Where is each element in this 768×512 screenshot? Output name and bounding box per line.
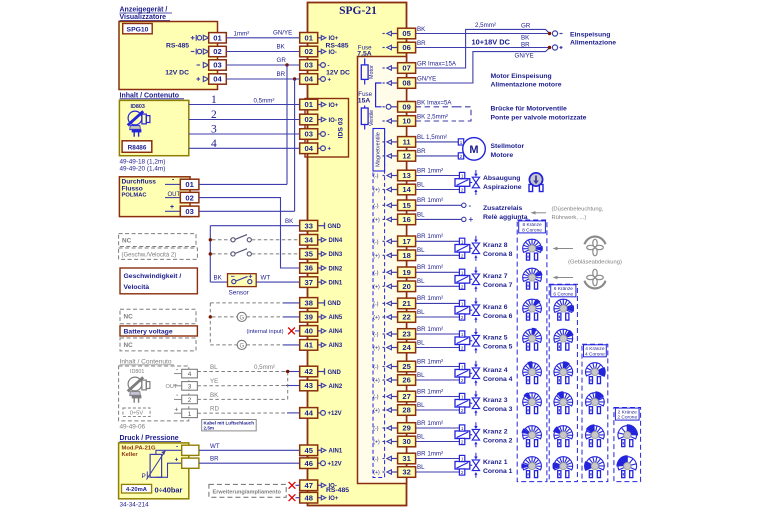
junction dot BR xyxy=(293,77,296,80)
svg-text:12V DC: 12V DC xyxy=(326,69,350,76)
svg-text:-: - xyxy=(469,201,472,210)
label Kranz 5 xyxy=(483,335,513,351)
svg-text:Kranz 5: Kranz 5 xyxy=(483,335,508,342)
wire BL (ID801-4 to 42) xyxy=(197,371,299,373)
terminal 22 (SPG-21 right) xyxy=(398,312,416,323)
ID801 terminal 3 xyxy=(166,382,198,391)
svg-text:2: 2 xyxy=(461,315,464,320)
svg-text:(-): (-) xyxy=(373,457,378,463)
svg-text:30: 30 xyxy=(402,437,410,446)
ID801 terminal 2 xyxy=(174,392,197,404)
svg-text:38: 38 xyxy=(304,299,312,308)
SPG10 terminal 03 xyxy=(209,60,227,70)
svg-text:IO+: IO+ xyxy=(329,36,339,42)
label BL 1,5mm2 xyxy=(417,134,447,141)
svg-text:GND: GND xyxy=(328,370,342,376)
svg-text:BK: BK xyxy=(285,218,294,225)
label BL (22) xyxy=(417,309,425,316)
SPG-21 title xyxy=(339,5,377,17)
svg-text:Stellmotor: Stellmotor xyxy=(491,143,525,150)
svg-text:Visualizzatore: Visualizzatore xyxy=(120,14,167,21)
svg-text:-: - xyxy=(176,444,178,451)
svg-text:BR 1mm²: BR 1mm² xyxy=(417,358,443,365)
svg-text:Flusso: Flusso xyxy=(122,185,143,192)
x mark terminal 48 xyxy=(289,494,300,501)
svg-text:BK Imax=5A: BK Imax=5A xyxy=(417,99,452,106)
svg-text:2: 2 xyxy=(461,378,464,383)
svg-text:(+): (+) xyxy=(373,378,380,384)
flow meter terminal 03 xyxy=(180,206,199,217)
pin 35 DIN3 stub xyxy=(318,252,343,259)
svg-text:BR 1mm²: BR 1mm² xyxy=(417,264,443,271)
dashed column box 8 Kraenze xyxy=(517,220,547,482)
label 0,5mm2 (ID801) xyxy=(254,364,275,371)
label BL (24) xyxy=(417,339,425,346)
wire BK (ID801-2 up to 42) xyxy=(197,374,287,400)
label BR 1mm2 (13) xyxy=(417,167,443,174)
label GR xyxy=(277,57,287,64)
svg-text:SPG-21: SPG-21 xyxy=(339,5,377,17)
svg-text:(+): (+) xyxy=(373,253,380,259)
wire GND row 38 xyxy=(210,302,299,304)
ID801 terminal 4 xyxy=(174,366,197,378)
svg-text:GN/YE: GN/YE xyxy=(515,53,534,60)
svg-text:BL 1,5mm²: BL 1,5mm² xyxy=(417,134,447,141)
svg-text:10: 10 xyxy=(402,117,410,126)
svg-text:Corona 4: Corona 4 xyxy=(483,376,513,383)
IDS 03 label xyxy=(338,117,345,138)
kranz icon 4 in column 6 xyxy=(554,361,573,383)
dashed vertical (G group) xyxy=(209,303,211,345)
svg-text:2: 2 xyxy=(461,346,464,351)
svg-text:01: 01 xyxy=(304,34,313,43)
label BR (supply) xyxy=(521,41,530,48)
wire flow meter 02 OUT to DIN2 xyxy=(199,198,300,268)
kranz icon 6 in column 6 xyxy=(554,299,574,320)
svg-text:RS-485: RS-485 xyxy=(326,487,349,494)
svg-text:2: 2 xyxy=(461,284,464,289)
svg-text:BL: BL xyxy=(417,211,425,218)
svg-text:25: 25 xyxy=(402,362,411,371)
kranz icon 1 in column 4 xyxy=(584,457,604,478)
terminal 06 (SPG-21 right) xyxy=(398,42,416,53)
kranz icon 2 in column 6 xyxy=(553,426,573,447)
svg-text:0,5mm²: 0,5mm² xyxy=(254,364,275,371)
svg-text:3: 3 xyxy=(188,383,192,390)
title Inhalt/Contenuto (ID801) xyxy=(120,358,175,365)
wire BR 06 to supply xyxy=(416,47,550,49)
kranz icon 5 in column 8 xyxy=(523,328,542,350)
speed sensor switch box xyxy=(228,274,257,287)
svg-text:16: 16 xyxy=(402,215,410,224)
terminal 21 (SPG-21 right) xyxy=(398,298,416,309)
label BL (26) xyxy=(417,372,425,379)
solenoid valve kranz 1 xyxy=(455,453,480,478)
label WT (sensor) xyxy=(261,274,271,281)
terminal 23 (SPG-21 right) xyxy=(398,329,416,340)
svg-text:OUT: OUT xyxy=(166,384,178,390)
wire GR 07 up to supply xyxy=(416,29,550,68)
terminal 09 (SPG-21 right) xyxy=(398,102,416,113)
wire BR down to flow meter plus xyxy=(294,79,296,211)
terminal 03 (SPG-21 left B03) xyxy=(300,129,318,140)
pin 34 DIN4 stub xyxy=(318,238,343,245)
svg-text:22: 22 xyxy=(402,313,410,322)
suction icon xyxy=(529,173,543,192)
svg-text:12: 12 xyxy=(402,152,410,161)
svg-text:Corona 2: Corona 2 xyxy=(483,438,513,445)
wire to relay plus xyxy=(416,215,474,224)
svg-text:1: 1 xyxy=(461,174,464,179)
label 49-49-06 xyxy=(120,423,146,430)
kranz icon 1 in column 2 xyxy=(616,455,636,477)
SPG-21 main unit box xyxy=(308,3,407,506)
svg-text:2: 2 xyxy=(461,253,464,258)
svg-text:4 Kränze: 4 Kränze xyxy=(585,346,605,352)
x mark terminal 47 xyxy=(289,482,300,489)
svg-text:49-49-20 (1,4m): 49-49-20 (1,4m) xyxy=(120,166,166,173)
svg-text:DIN1: DIN1 xyxy=(329,280,343,286)
svg-text:Anzeigegerät /: Anzeigegerät / xyxy=(120,7,168,14)
label BR 1mm2 (25) xyxy=(417,358,443,365)
svg-text:Corona 5: Corona 5 xyxy=(483,344,513,351)
terminal 32 (SPG-21 right) xyxy=(398,467,416,478)
SPG10 RS-485 label xyxy=(166,42,189,49)
svg-text:Magnetventile: Magnetventile xyxy=(375,132,381,167)
NC dashed box 1 xyxy=(119,234,196,247)
label Kranz 4 xyxy=(483,367,513,383)
svg-text:Corona 1: Corona 1 xyxy=(483,468,513,475)
svg-text:(+): (+) xyxy=(373,315,380,321)
label Geblaeseabdeckung xyxy=(568,259,622,265)
svg-text:20: 20 xyxy=(402,282,410,291)
flow meter minus mark xyxy=(165,177,180,185)
wire BR to kranz 1 valve xyxy=(416,458,460,460)
kranz icon 1 in column 8 xyxy=(521,457,541,478)
generator G2 xyxy=(210,340,299,349)
svg-text:2: 2 xyxy=(460,154,463,159)
svg-text:1: 1 xyxy=(461,365,464,370)
svg-text:(+): (+) xyxy=(373,217,380,223)
label GN/YE xyxy=(273,29,292,36)
svg-text:POLMAC: POLMAC xyxy=(122,193,148,199)
svg-text:-: - xyxy=(328,63,330,69)
solenoid valve kranz 2 xyxy=(455,422,480,447)
svg-text:IO-: IO- xyxy=(329,118,337,124)
svg-text:24: 24 xyxy=(402,343,411,352)
svg-text:1: 1 xyxy=(211,94,217,106)
wire BR (SPG10-04 to 04) xyxy=(226,78,299,80)
svg-text:10+18V DC: 10+18V DC xyxy=(472,38,511,47)
svg-text:Kranz 2: Kranz 2 xyxy=(483,429,508,436)
terminal 46 (SPG-21 left 46) xyxy=(300,458,318,469)
svg-text:27: 27 xyxy=(402,392,410,401)
label BR xyxy=(277,71,286,78)
svg-text:GR: GR xyxy=(277,57,287,64)
svg-text:BL: BL xyxy=(417,464,425,471)
wire cable 4 (ID803 to IDS 04) xyxy=(189,147,300,149)
kranz icon 2 in column 4 xyxy=(586,424,605,446)
label Kranz 3 xyxy=(483,397,513,413)
svg-text:(+): (+) xyxy=(373,440,380,446)
terminal 14 (SPG-21 right) xyxy=(398,184,416,195)
label BK (ID801) xyxy=(210,392,219,399)
label RD xyxy=(210,406,219,413)
solenoid valve kranz 5 xyxy=(455,328,480,353)
svg-text:36: 36 xyxy=(304,264,312,273)
internal input row 40 xyxy=(247,328,300,336)
svg-text:0÷40bar: 0÷40bar xyxy=(155,485,183,494)
svg-text:GN/YE: GN/YE xyxy=(273,29,292,36)
svg-text:BK: BK xyxy=(214,274,223,281)
svg-text:YE: YE xyxy=(210,378,218,385)
svg-text:AIN5: AIN5 xyxy=(329,315,343,321)
svg-text:IO+: IO+ xyxy=(329,103,339,109)
wire WT to 45 xyxy=(199,449,300,451)
terminal 39 (SPG-21 left 39) xyxy=(300,312,318,323)
RS-485 label (SPG-21 left top) xyxy=(325,42,348,49)
svg-text:4 Corone: 4 Corone xyxy=(585,351,605,357)
terminal 13 (SPG-21 right) xyxy=(398,170,416,181)
svg-text:2: 2 xyxy=(461,408,464,413)
svg-text:47: 47 xyxy=(304,481,312,490)
terminal 05 (SPG-21 right) xyxy=(398,28,416,39)
Erweiterung dashed box xyxy=(209,484,286,497)
terminal 47 (SPG-21 left 47) xyxy=(300,480,318,491)
supply minus node xyxy=(548,31,563,36)
svg-text:03: 03 xyxy=(304,61,312,70)
label Motor Einspeisung xyxy=(491,73,562,89)
svg-text:BL: BL xyxy=(417,339,425,346)
svg-text:26: 26 xyxy=(402,376,410,385)
svg-text:Mod.PA-21G: Mod.PA-21G xyxy=(122,446,157,452)
svg-text:(-): (-) xyxy=(373,332,378,338)
svg-text:Ponte per valvole motorizzate: Ponte per valvole motorizzate xyxy=(491,114,587,121)
junction dot GR xyxy=(285,63,288,66)
svg-text:2,5mm²: 2,5mm² xyxy=(475,22,496,29)
svg-text:4: 4 xyxy=(188,371,192,378)
svg-text:Einspeisung: Einspeisung xyxy=(570,31,610,38)
terminal 10 (SPG-21 right) xyxy=(398,116,416,127)
svg-text:BL: BL xyxy=(417,278,425,285)
terminal 01 (SPG-21 left B01) xyxy=(300,99,318,110)
label BL (20) xyxy=(417,278,425,285)
SPG10 terminal 01 xyxy=(209,33,227,43)
label 10+18V DC xyxy=(472,38,511,47)
terminal 44 (SPG-21 left 44) xyxy=(300,408,318,419)
svg-text:34-34-214: 34-34-214 xyxy=(120,501,150,508)
wire BR to kranz 8 valve xyxy=(416,240,460,242)
kranz icon 4 in column 8 xyxy=(523,361,542,383)
label Kranz 7 xyxy=(483,273,513,289)
SPG10 pin symbol 01 xyxy=(191,35,209,41)
label 2,5mm2 xyxy=(475,22,496,29)
svg-text:19: 19 xyxy=(402,268,410,277)
svg-text:(-): (-) xyxy=(373,301,378,307)
motor M pins xyxy=(458,139,463,159)
wire BL to kranz 1 valve xyxy=(416,471,460,473)
svg-text:(internal input): (internal input) xyxy=(247,329,284,335)
wire BR to kranz 2 valve xyxy=(416,427,460,429)
svg-text:IO-: IO- xyxy=(329,50,337,56)
pin IDS02 IO- stub xyxy=(318,117,337,124)
solenoid valve kranz 3 xyxy=(455,391,480,416)
svg-text:4: 4 xyxy=(211,138,217,150)
svg-text:BK: BK xyxy=(210,392,219,399)
svg-text:Inhalt / Contenuto: Inhalt / Contenuto xyxy=(120,92,180,99)
cable wire number 1 xyxy=(211,94,217,106)
wire BL to kranz 5 valve xyxy=(416,347,460,349)
label Einspeisung/Alimentazione xyxy=(570,31,616,46)
bridge dashed 09-10 xyxy=(456,107,471,121)
svg-text:BR 1mm²: BR 1mm² xyxy=(417,197,443,204)
svg-text:BL: BL xyxy=(210,364,218,371)
svg-text:BR 1mm²: BR 1mm² xyxy=(417,295,443,302)
svg-text:8 Corone: 8 Corone xyxy=(522,228,542,234)
svg-text:1: 1 xyxy=(461,239,464,244)
label BK (sensor) xyxy=(214,274,223,281)
svg-text:2: 2 xyxy=(461,188,464,193)
svg-text:(-): (-) xyxy=(373,270,378,276)
svg-text:Kranz 4: Kranz 4 xyxy=(483,367,508,374)
Magnetventile dashed box xyxy=(373,129,385,478)
label BK xyxy=(277,43,286,50)
svg-text:BR 1mm²: BR 1mm² xyxy=(417,388,443,395)
SPG10 pin symbol 02 xyxy=(191,49,209,55)
svg-text:Corona 6: Corona 6 xyxy=(483,313,513,320)
label Kranz 8 xyxy=(483,242,513,258)
pin 37 DIN1 stub xyxy=(318,280,343,287)
svg-text:0÷5V: 0÷5V xyxy=(130,411,144,417)
svg-text:11: 11 xyxy=(403,138,412,147)
label BR 1mm2 (21) xyxy=(417,295,443,302)
pin 47 IO- stub xyxy=(318,483,337,490)
terminal 19 (SPG-21 right) xyxy=(398,267,416,278)
kranz icon 3 in column 6 xyxy=(554,391,573,413)
wire BR to kranz 3 valve xyxy=(416,396,460,398)
terminal 28 (SPG-21 right) xyxy=(398,405,416,416)
label Kranz 6 xyxy=(483,304,513,320)
svg-text:2,5m: 2,5m xyxy=(204,426,214,431)
fuse F2 Ventile xyxy=(361,106,375,130)
svg-text:DIN2: DIN2 xyxy=(329,266,343,272)
svg-text:AIN2: AIN2 xyxy=(329,384,343,390)
RS-485 label (SPG-21 left bottom) xyxy=(326,487,349,494)
fuse F1 Motor xyxy=(361,59,375,85)
wire 09 (dashed bridge) xyxy=(416,106,456,108)
svg-text:Kabel mit Luftschlauch: Kabel mit Luftschlauch xyxy=(204,420,255,425)
wire BL to motor xyxy=(416,141,459,143)
SPG10 pin symbol 04 xyxy=(197,76,209,81)
svg-text:14: 14 xyxy=(402,185,411,194)
wire BK 05 to supply xyxy=(416,33,550,35)
label BK 2,5mm2 xyxy=(417,114,448,121)
terminal 02 (SPG-21 left A02) xyxy=(300,46,318,57)
SPG10 terminal 02 xyxy=(209,46,227,56)
wire BL to kranz 3 valve xyxy=(416,409,460,411)
terminal 16 (SPG-21 right) xyxy=(398,214,416,225)
svg-text:1: 1 xyxy=(461,395,464,400)
ID801 dashed box xyxy=(119,366,189,421)
svg-text:04: 04 xyxy=(304,75,313,84)
svg-text:Aspirazione: Aspirazione xyxy=(483,184,522,191)
svg-text:12V DC: 12V DC xyxy=(165,69,189,76)
svg-text:0,5mm²: 0,5mm² xyxy=(254,98,275,105)
kranz icon 4 in column 4 xyxy=(586,363,606,384)
svg-text:(-): (-) xyxy=(373,239,378,245)
label BR 1mm2 (19) xyxy=(417,264,443,271)
label BR 1mm2 (29) xyxy=(417,420,443,427)
svg-text:Geschwindigkeit /: Geschwindigkeit / xyxy=(124,273,182,280)
svg-text:-: - xyxy=(328,132,330,138)
svg-text:M: M xyxy=(469,144,478,156)
svg-text:BK 2,5mm²: BK 2,5mm² xyxy=(417,114,448,121)
kranz icon 2 in column 8 xyxy=(521,426,541,447)
terminal 01 (SPG-21 left A01) xyxy=(300,33,318,44)
svg-text:SPG10: SPG10 xyxy=(127,26,149,33)
pin 46 +12V stub xyxy=(318,461,342,468)
svg-text:NC: NC xyxy=(124,342,134,349)
label BL (18) xyxy=(417,247,425,254)
label 49-49-18 xyxy=(120,158,166,165)
svg-text:Erweiterung/ampliamento: Erweiterung/ampliamento xyxy=(213,489,282,495)
svg-text:2: 2 xyxy=(461,470,464,475)
svg-text:Rührwerk, ...): Rührwerk, ...) xyxy=(552,215,587,221)
svg-text:29: 29 xyxy=(402,424,410,433)
label WT (pressure) xyxy=(210,443,220,450)
svg-text:18: 18 xyxy=(402,251,410,260)
terminal 15 (SPG-21 right) xyxy=(398,200,416,211)
label BK (supply) xyxy=(521,35,530,42)
pin 44 +12V stub xyxy=(318,411,342,418)
label Kranz 1 xyxy=(483,459,513,475)
wire BR to motor xyxy=(416,155,459,157)
label BR 06 xyxy=(417,40,426,47)
svg-text:32: 32 xyxy=(402,468,410,477)
svg-text:Druck / Pressione: Druck / Pressione xyxy=(120,435,179,442)
flow meter terminal 01 xyxy=(180,179,199,190)
svg-text:RD: RD xyxy=(210,406,219,413)
svg-text:09: 09 xyxy=(402,103,410,112)
suction solenoid valve xyxy=(455,170,480,195)
wire RD (ID801-1 to 44) xyxy=(197,412,299,414)
svg-text:Alimentazione: Alimentazione xyxy=(570,40,616,47)
svg-text:R8486: R8486 xyxy=(128,144,147,151)
pin 33 GND stub xyxy=(318,223,342,231)
svg-text:(+): (+) xyxy=(373,284,380,290)
IDS 03 sub-box xyxy=(305,99,349,158)
svg-text:Battery voltage: Battery voltage xyxy=(124,329,173,336)
terminal 29 (SPG-21 right) xyxy=(398,423,416,434)
svg-text:2 Kränze: 2 Kränze xyxy=(618,409,638,415)
dashed column box 6 Kraenze xyxy=(549,284,577,481)
svg-text:05: 05 xyxy=(402,29,411,38)
junction dot DIN4 row xyxy=(209,238,212,241)
svg-text:6 Kränze: 6 Kränze xyxy=(554,286,574,292)
label BR 1mm2 (17) xyxy=(417,233,443,240)
label GN/YE (supply) xyxy=(515,53,534,60)
svg-text:Kranz 1: Kranz 1 xyxy=(483,459,508,466)
label BK (GND wire) xyxy=(285,218,294,225)
motor M circle xyxy=(463,138,486,161)
flow meter plus mark xyxy=(165,204,180,211)
relay gray arrow xyxy=(531,211,547,215)
pressure wiring xyxy=(156,444,182,478)
wire cable 1 (ID803 to IDS 01) xyxy=(189,104,300,106)
wire BL to kranz 8 valve xyxy=(416,254,460,256)
SPG-21 inner relay/fuse compartment xyxy=(358,57,407,484)
solenoid valve kranz 4 xyxy=(455,361,480,386)
